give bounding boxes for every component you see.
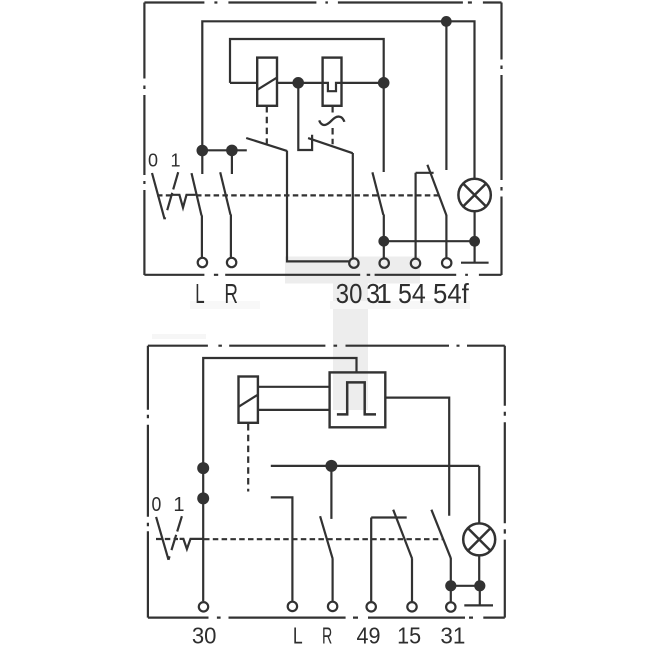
wire: feed arm pivot down and over to terminal 30 bbox=[287, 151, 349, 262]
terminal 30 bbox=[349, 258, 358, 267]
15 contact arm (closed onto 49 bar) bbox=[393, 510, 412, 559]
dashed actuator link from coil K1 bbox=[266, 106, 268, 144]
node above R bbox=[226, 145, 238, 157]
svg-text:30: 30 bbox=[192, 623, 217, 649]
node: bus to contact hook bbox=[292, 77, 304, 89]
wire: 54f arm down to terminal bbox=[445, 215, 447, 258]
lever return spring notch bbox=[180, 539, 203, 549]
wire: node to chassis bar bbox=[474, 246, 476, 263]
wire: 49 branch down to terminal bbox=[370, 518, 372, 602]
svg-text:31: 31 bbox=[440, 623, 465, 649]
svg-text:0: 0 bbox=[148, 150, 158, 170]
enclosure border (dash-dot) top diagram bbox=[144, 1, 501, 3]
terminal R bbox=[227, 258, 236, 267]
svg-text:15: 15 bbox=[397, 623, 421, 649]
wire: hook feed from bus node to flasher contact post bbox=[298, 87, 312, 150]
wire: pulse output to 31 contact fixed post bbox=[385, 398, 449, 516]
svg-text:1: 1 bbox=[173, 494, 184, 516]
wire: L branch (open contact bend) bbox=[271, 497, 293, 601]
terminal 54 bbox=[411, 259, 420, 268]
svg-text:1: 1 bbox=[376, 278, 392, 309]
pulse generator box bbox=[330, 372, 386, 427]
wire: L fixed contact bbox=[201, 155, 203, 174]
lever return spring notch bbox=[172, 195, 196, 208]
terminal R bbox=[328, 602, 337, 611]
mechanical link line (dash-dot) bbox=[156, 538, 444, 540]
watermark bbox=[152, 257, 470, 411]
svg-text:R: R bbox=[224, 278, 238, 309]
chassis bar bbox=[464, 604, 493, 606]
wire: coil to pulse box (lower) bbox=[258, 409, 330, 411]
wire: node31 to lamp node bbox=[451, 585, 480, 587]
wire: top feed loop from node above L to lamp branch bbox=[202, 21, 474, 179]
lever stroke position 0 bbox=[152, 173, 165, 219]
wire: lamp bottom to node bbox=[474, 211, 476, 236]
node above lamp ground bbox=[469, 236, 480, 247]
terminal 54f bbox=[442, 258, 451, 267]
wire: node to chassis bar bbox=[479, 591, 481, 605]
lever stroke position 1 (dashed) bbox=[165, 172, 179, 219]
wire: 31 arm down to node bbox=[450, 558, 452, 602]
svg-text:49: 49 bbox=[357, 623, 381, 649]
wire: bottom link node31 to lamp node bbox=[384, 240, 475, 242]
terminal 15 bbox=[407, 602, 416, 611]
wire: relay supply loop (upper) bbox=[230, 39, 384, 83]
dashed actuator link from coil bbox=[247, 424, 249, 492]
lever stroke position 0 bbox=[156, 517, 168, 560]
node on top feed line bbox=[441, 16, 452, 27]
wire: distribution rail bbox=[271, 465, 479, 467]
wire: bar joining L/R fixed contacts bbox=[202, 149, 247, 151]
wire: 54 branch down to terminal bbox=[415, 173, 417, 259]
wire: drop from node to 54f changeover fixed contact bbox=[445, 21, 447, 170]
wire: rail down to lamp bbox=[478, 466, 480, 524]
turn-switch feed contact arm (open) bbox=[246, 138, 287, 151]
terminal 49 bbox=[367, 602, 376, 611]
wire: R fixed contact bbox=[330, 466, 332, 519]
wire: L arm to terminal L bbox=[201, 215, 203, 257]
labels top diagram bbox=[148, 150, 181, 170]
labels bottom diagram bbox=[152, 494, 185, 516]
pulse symbol bbox=[337, 382, 376, 414]
L contact arm (open) bbox=[192, 173, 202, 215]
svg-text:L: L bbox=[293, 623, 303, 649]
flasher contact arm (closed) bbox=[308, 138, 353, 153]
thermal element (wire expansion) bbox=[323, 58, 342, 106]
wire: R fixed contact bbox=[231, 155, 233, 174]
svg-text:L: L bbox=[195, 278, 204, 309]
heater squiggle on thermal actuator bbox=[319, 117, 344, 125]
wire: coil to pulse box (upper) bbox=[258, 386, 330, 388]
node above L bbox=[197, 145, 209, 157]
mechanical link line (dash-dot) bbox=[157, 194, 439, 196]
node above terminal 31 bbox=[445, 580, 456, 591]
node on 30 feed (upper) bbox=[197, 462, 209, 474]
svg-text:1: 1 bbox=[170, 150, 180, 170]
node on 30 feed (lower) bbox=[197, 492, 209, 504]
wire: coil bus left segment bbox=[230, 82, 257, 84]
node: bus joins 31 branch bbox=[378, 77, 390, 89]
relay coil K1 bbox=[257, 58, 277, 106]
relay coil K1 bbox=[239, 377, 258, 423]
svg-text:0: 0 bbox=[152, 494, 162, 516]
terminal 31 bbox=[380, 258, 389, 267]
enclosure border (dash-dot) bottom diagram bbox=[148, 345, 505, 347]
54f changeover arm (closed onto 54 bar) bbox=[427, 165, 446, 216]
wire: R arm to terminal R bbox=[230, 215, 232, 258]
lever stroke position 1 (dashed) bbox=[169, 516, 182, 560]
wire: vertical 31 branch fixed contact bbox=[383, 83, 385, 172]
wire: 15 arm to terminal 15 bbox=[411, 558, 413, 601]
wire: bus right segment to node bbox=[342, 82, 384, 84]
svg-text:R: R bbox=[322, 623, 332, 649]
wire: bus between coil and thermal element bbox=[277, 82, 323, 84]
node on rail above R bbox=[325, 460, 337, 472]
wire: lamp bottom to node bbox=[478, 555, 480, 580]
wire: R arm to terminal R bbox=[332, 558, 334, 601]
dashed actuator link from thermal element bbox=[332, 106, 334, 144]
indicator lamp bbox=[458, 179, 490, 211]
terminal L bbox=[288, 602, 297, 611]
node above terminal 31 bbox=[378, 236, 389, 247]
wire: main 30 feed up and over to pulse generator bbox=[203, 358, 356, 601]
wire: 54 fixed contact bar bbox=[416, 172, 434, 174]
31 contact arm (open) bbox=[372, 172, 383, 214]
terminal 31 bbox=[446, 602, 455, 611]
indicator lamp bbox=[463, 523, 495, 555]
svg-text:30: 30 bbox=[336, 278, 363, 309]
R contact arm (open) bbox=[220, 172, 230, 215]
wire: 31 arm down to node bbox=[383, 215, 385, 259]
chassis bar bbox=[461, 262, 489, 264]
svg-text:54f: 54f bbox=[433, 278, 469, 309]
wire: 49 fixed bar bbox=[371, 516, 407, 518]
node under lamp bbox=[474, 580, 485, 591]
wire: flasher arm to terminal 30 bbox=[352, 153, 354, 258]
31 contact arm (open) bbox=[431, 510, 450, 559]
terminal L bbox=[198, 258, 207, 267]
R contact arm (open) bbox=[320, 516, 333, 558]
svg-text:54: 54 bbox=[398, 278, 426, 309]
terminal 30 bbox=[199, 602, 208, 611]
